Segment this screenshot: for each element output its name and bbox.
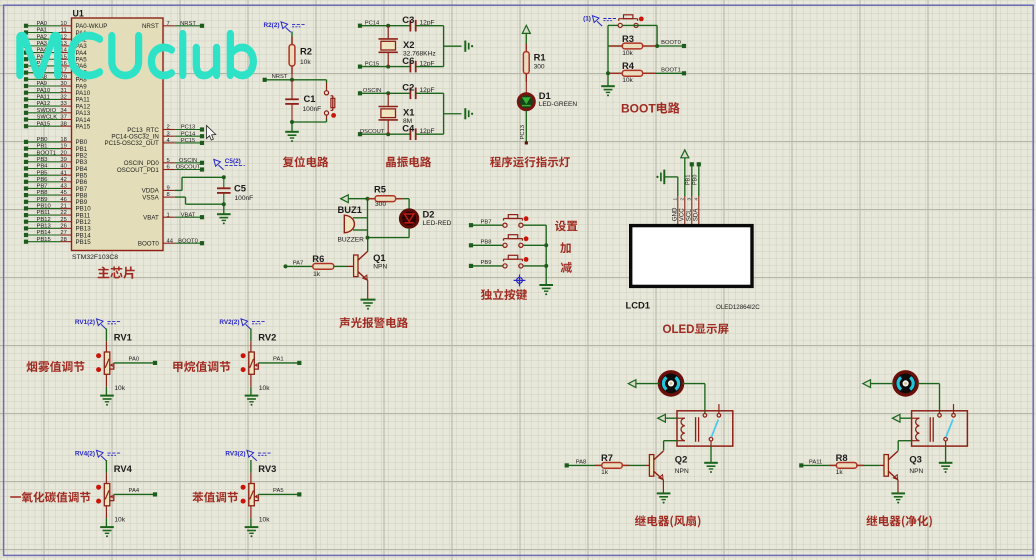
wire PB7 to button xyxy=(473,224,503,226)
svg-text:15: 15 xyxy=(60,54,66,60)
svg-text:OSCOUT: OSCOUT xyxy=(176,165,201,171)
pushbutton PB8 xyxy=(503,235,529,248)
terminal SCL xyxy=(690,162,694,166)
label 加 xyxy=(560,242,571,253)
wire VCC xyxy=(684,158,686,196)
svg-text:C4: C4 xyxy=(402,122,415,133)
chip pin 26 PB13 xyxy=(24,223,91,232)
svg-text:PC13: PC13 xyxy=(520,125,526,140)
display LCD1 OLED12864I2C xyxy=(626,226,761,311)
terminal PC15 xyxy=(358,65,362,69)
wire R1 to D1 xyxy=(525,74,527,93)
svg-text:GND: GND xyxy=(672,207,679,221)
svg-text:PC14: PC14 xyxy=(181,131,196,137)
IC U1 STM32F103C8 body xyxy=(72,8,164,261)
svg-text:11: 11 xyxy=(61,28,67,34)
svg-text:C2: C2 xyxy=(402,82,414,93)
pin 4 SDA xyxy=(693,198,700,222)
svg-text:PA2: PA2 xyxy=(37,34,48,40)
junction PC15-crystal xyxy=(386,65,390,69)
junction rail PB9 xyxy=(544,264,548,268)
chip pin 46 PB9 xyxy=(24,197,88,206)
wire top RV2 xyxy=(250,329,252,353)
svg-text:PA15: PA15 xyxy=(76,123,91,130)
svg-text:R7: R7 xyxy=(601,452,613,463)
svg-text:Q1: Q1 xyxy=(373,252,386,263)
chip pin 45 PB8 xyxy=(24,190,88,199)
svg-text:PB8: PB8 xyxy=(37,190,48,196)
svg-text:39: 39 xyxy=(60,157,66,163)
chip pin 15 PA5 xyxy=(24,54,87,63)
net marker RV3(2) xyxy=(225,450,271,460)
chip pin 28 PB15 xyxy=(24,237,91,246)
svg-text:PC15-OSC32_OUT: PC15-OSC32_OUT xyxy=(104,140,159,147)
ground OLED sideways xyxy=(661,170,664,185)
svg-text:PB15: PB15 xyxy=(37,237,51,243)
svg-text:PB11: PB11 xyxy=(37,210,51,216)
OLED pin stubs xyxy=(678,196,699,226)
mouse cursor xyxy=(207,126,216,141)
svg-text:RV4: RV4 xyxy=(114,463,133,474)
wire C6 to gnd rail xyxy=(416,66,444,68)
wire button PB8 to rail xyxy=(523,244,546,246)
svg-text:22: 22 xyxy=(60,210,66,216)
power arrow OLED xyxy=(681,150,689,158)
chip pin 7 NRST xyxy=(142,21,204,30)
wire bottom RV3 xyxy=(250,506,252,527)
chip pin 16 PA6 xyxy=(24,61,87,70)
terminal PA11 xyxy=(799,463,803,467)
chip pin 42 PB6 xyxy=(24,177,88,186)
wire motor to relay contact xyxy=(917,384,939,414)
wire OSCOUT row xyxy=(362,133,411,135)
label 苯值调节 xyxy=(192,492,238,503)
wire PA8 to R7 xyxy=(569,464,602,466)
chip pin 40 PB4 xyxy=(24,164,88,173)
ground Q2 xyxy=(657,493,671,499)
svg-text:100nF: 100nF xyxy=(303,106,322,113)
wire button PB9 to rail xyxy=(523,265,546,267)
svg-text:PC13: PC13 xyxy=(181,125,196,131)
power arrow coil xyxy=(658,414,666,422)
label 继电器(风扇) xyxy=(635,515,701,527)
transistor Q2 NPN xyxy=(649,451,689,480)
svg-text:BOOT0: BOOT0 xyxy=(138,241,160,248)
relay Q3 box xyxy=(912,404,968,446)
power arrow D1 xyxy=(522,25,530,33)
svg-text:10k: 10k xyxy=(300,59,311,66)
capacitor C3 xyxy=(402,14,434,32)
chip pin 30 PA9 xyxy=(24,81,87,90)
wire D2 bottom xyxy=(368,228,410,238)
wire arrow-motor xyxy=(636,383,659,385)
junction OSCIN-crystal xyxy=(386,91,390,95)
wire C3 to gnd rail xyxy=(416,25,444,27)
chip pin 27 PB14 xyxy=(24,230,91,239)
svg-text:RV2(2): RV2(2) xyxy=(219,319,239,326)
svg-text:PB3: PB3 xyxy=(37,157,48,163)
wire top RV3 xyxy=(250,460,252,484)
label 声光报警电路 xyxy=(339,317,408,328)
wiper wire RV3 xyxy=(254,494,297,500)
power arrow alarm xyxy=(341,195,349,203)
ground RV3 xyxy=(245,527,259,533)
svg-text:NRST: NRST xyxy=(142,23,159,30)
terminal BOOT0 xyxy=(682,44,686,48)
wire NRST node xyxy=(267,79,327,81)
label 烟雾值调节 xyxy=(26,361,84,372)
terminal BOOT1 xyxy=(682,71,686,75)
svg-text:20: 20 xyxy=(60,150,66,156)
label 独立按键 xyxy=(481,289,527,300)
wire D1 to PC13 xyxy=(525,111,527,142)
pushbutton PB7 xyxy=(503,215,529,228)
junction rail PB8 xyxy=(544,243,548,247)
origin marker xyxy=(514,275,526,287)
wire coil to collector xyxy=(664,441,677,451)
svg-text:33: 33 xyxy=(60,101,66,107)
motor Q2 load xyxy=(659,372,682,395)
pushbutton PB9 xyxy=(503,255,529,268)
ground crystal xyxy=(465,41,468,52)
svg-text:U1: U1 xyxy=(73,8,84,18)
svg-text:PA5: PA5 xyxy=(273,488,284,494)
power arrow motor xyxy=(863,380,871,388)
svg-text:PB7: PB7 xyxy=(481,219,492,225)
svg-text:LED-GREEN: LED-GREEN xyxy=(539,101,578,108)
svg-text:1: 1 xyxy=(673,198,679,201)
svg-text:16: 16 xyxy=(60,61,66,67)
svg-text:BOOT1: BOOT1 xyxy=(37,150,57,156)
wire C4 to gnd rail xyxy=(416,133,444,135)
chip pin 11 PA1 xyxy=(24,28,87,37)
wire contact to ground xyxy=(945,446,947,462)
svg-text:PA11: PA11 xyxy=(37,94,50,100)
chip pin 10 PA0 xyxy=(24,21,107,30)
chip pin 4 PC15-OSC32_OUT xyxy=(104,138,204,147)
svg-text:SWCLK: SWCLK xyxy=(37,115,58,121)
ground reset xyxy=(285,132,299,138)
capacitor C1 xyxy=(285,80,321,122)
svg-text:44: 44 xyxy=(167,238,174,244)
svg-text:PB7: PB7 xyxy=(37,184,48,190)
svg-text:OSCIN: OSCIN xyxy=(179,158,197,164)
chip pin 37 SWCLK xyxy=(24,115,91,124)
junction collector node xyxy=(366,236,370,240)
svg-text:7: 7 xyxy=(167,21,170,27)
svg-text:2: 2 xyxy=(167,125,170,131)
wire VDDA to C5 xyxy=(175,177,224,190)
resistor R5 xyxy=(368,183,403,208)
svg-text:BUZZER: BUZZER xyxy=(338,236,365,243)
svg-text:PB4: PB4 xyxy=(37,164,49,170)
svg-text:SCL: SCL xyxy=(686,209,693,222)
terminal OSCOUT xyxy=(358,132,362,136)
svg-text:X1: X1 xyxy=(403,107,414,118)
wire PA11 to R8 xyxy=(803,464,836,466)
transistor Q1 NPN xyxy=(354,251,388,280)
label 晶振电路 xyxy=(386,156,431,167)
ground keys xyxy=(539,285,553,291)
svg-text:26: 26 xyxy=(60,223,66,229)
svg-text:19: 19 xyxy=(60,144,66,150)
pin 2 VCC xyxy=(679,198,686,222)
svg-text:SDA: SDA xyxy=(693,208,700,222)
wire R8 to base xyxy=(857,464,884,466)
ground BOOT xyxy=(601,86,615,92)
terminal PB9 xyxy=(469,264,473,268)
svg-text:OLED12864I2C: OLED12864I2C xyxy=(716,304,760,311)
pushbutton BOOT xyxy=(618,15,644,28)
chip pin 13 PA3 xyxy=(24,41,87,50)
wiper wire RV1 xyxy=(110,363,153,369)
chip pin 20 BOOT1 xyxy=(24,150,88,159)
svg-text:38: 38 xyxy=(60,121,66,127)
chip pin 9 VDDA xyxy=(142,186,175,195)
svg-text:NPN: NPN xyxy=(909,468,923,475)
svg-text:8: 8 xyxy=(167,192,170,198)
wire PC14 row xyxy=(362,25,411,27)
svg-text:45: 45 xyxy=(60,190,66,196)
wire GND pin xyxy=(664,177,678,196)
chip pin 5 OSCIN_PD0 xyxy=(124,158,204,167)
junction PC14-crystal xyxy=(386,24,390,28)
terminal PC14 xyxy=(358,24,362,28)
chip pin 19 PB1 xyxy=(24,144,88,153)
svg-text:PA7: PA7 xyxy=(293,261,304,267)
resistor R2 xyxy=(289,37,312,75)
wire arrow to R1 xyxy=(525,33,527,51)
chip pin 44 BOOT0 xyxy=(138,238,204,247)
svg-text:10k: 10k xyxy=(622,50,633,57)
svg-text:2: 2 xyxy=(680,198,686,201)
chip pin 43 PB7 xyxy=(24,184,88,193)
svg-text:10: 10 xyxy=(60,21,66,27)
svg-text:(1): (1) xyxy=(583,16,591,23)
resistor R3 xyxy=(608,33,684,57)
label 设置 xyxy=(555,221,578,232)
power arrow motor xyxy=(628,380,636,388)
label 减 xyxy=(561,262,572,273)
wire PC15 row xyxy=(362,66,411,68)
svg-text:5: 5 xyxy=(167,158,170,164)
svg-text:R2(2): R2(2) xyxy=(264,22,280,29)
wire OSCIN row xyxy=(362,92,411,94)
crystal X2 xyxy=(379,26,436,67)
ground relay contact xyxy=(939,463,953,469)
svg-text:R4: R4 xyxy=(622,60,635,71)
wire R3 to R4 xyxy=(607,46,609,73)
svg-text:3: 3 xyxy=(167,131,170,137)
wire keys rail xyxy=(545,225,547,284)
svg-text:43: 43 xyxy=(60,184,66,190)
svg-text:PB9: PB9 xyxy=(481,260,492,266)
wire contact to ground xyxy=(710,446,712,462)
svg-text:1: 1 xyxy=(167,212,170,218)
power arrow coil xyxy=(892,414,900,422)
svg-text:LED-RED: LED-RED xyxy=(423,220,452,227)
svg-text:PA1: PA1 xyxy=(273,356,284,362)
junction NRST-C1 xyxy=(290,78,294,82)
potentiometer RV4 xyxy=(104,463,132,524)
svg-text:VBAT: VBAT xyxy=(143,215,159,222)
svg-text:PB8: PB8 xyxy=(481,240,492,246)
label 复位电路 xyxy=(283,156,329,167)
wire bottom RV2 xyxy=(250,374,252,395)
svg-text:10k: 10k xyxy=(259,385,270,392)
chip pin 1 VBAT xyxy=(143,212,204,221)
wire alarm rail xyxy=(367,199,369,238)
svg-text:PB5: PB5 xyxy=(37,170,48,176)
svg-text:PB10: PB10 xyxy=(37,204,51,210)
svg-text:PB0: PB0 xyxy=(693,175,699,185)
svg-text:46: 46 xyxy=(60,197,66,203)
svg-text:RV2: RV2 xyxy=(258,331,276,342)
terminal PA0 xyxy=(153,361,157,365)
chip pin 18 PB0 xyxy=(24,137,88,146)
chip pin 38 PA15 xyxy=(24,121,91,130)
terminal PA1 xyxy=(297,361,301,365)
chip pin 31 PA10 xyxy=(24,88,91,97)
svg-text:28: 28 xyxy=(60,237,66,243)
junction dots C5 xyxy=(222,175,226,179)
label BOOT电路 xyxy=(621,101,680,115)
wire SCL xyxy=(691,166,693,196)
chip pin 3 PC14-OSC32_IN xyxy=(111,131,204,140)
resistor R6 xyxy=(312,253,334,278)
svg-text:C3: C3 xyxy=(402,14,414,25)
wire bottom RV4 xyxy=(105,506,107,527)
svg-text:NPN: NPN xyxy=(373,263,387,270)
svg-text:PB1: PB1 xyxy=(37,144,48,150)
pin 3 SCL xyxy=(686,198,693,222)
wire emitter ground xyxy=(662,480,664,493)
pot marker dots RV3 xyxy=(241,485,246,490)
svg-text:34: 34 xyxy=(60,108,67,114)
svg-text:SWDIO: SWDIO xyxy=(37,108,57,114)
svg-text:14: 14 xyxy=(60,48,67,54)
svg-text:17: 17 xyxy=(60,68,66,74)
svg-text:X2: X2 xyxy=(403,39,414,50)
svg-text:18: 18 xyxy=(60,137,66,143)
resistor R1 xyxy=(523,44,545,82)
wire PA7 to R6 xyxy=(287,265,312,267)
LED D1 LED-GREEN xyxy=(518,90,577,110)
svg-text:C6: C6 xyxy=(402,55,414,66)
svg-text:R8: R8 xyxy=(836,452,848,463)
ground RV2 xyxy=(245,396,259,402)
ground RV4 xyxy=(100,527,114,533)
svg-text:12: 12 xyxy=(60,34,66,40)
svg-text:PB0: PB0 xyxy=(37,137,48,143)
svg-text:PA4: PA4 xyxy=(129,488,140,494)
label OLED显示屏 xyxy=(663,324,729,336)
net marker (1) xyxy=(583,16,616,26)
junction R5-rail xyxy=(366,197,370,201)
wire R4 to ground xyxy=(607,73,609,86)
resistor R8 xyxy=(829,452,864,476)
pot marker dots RV2 xyxy=(241,353,246,358)
pin 1 GND xyxy=(672,198,679,222)
wire bottom RV1 xyxy=(105,374,107,395)
wire R7 to base xyxy=(622,464,649,466)
ground Q1 xyxy=(361,300,376,306)
svg-text:C5(2): C5(2) xyxy=(225,158,241,165)
svg-text:VCC: VCC xyxy=(679,208,686,222)
svg-text:PA3: PA3 xyxy=(37,41,48,47)
svg-text:Q3: Q3 xyxy=(909,453,922,464)
label 一氧化碳值调节 xyxy=(10,492,90,503)
chip pin 25 PB12 xyxy=(24,217,91,226)
svg-text:NRST: NRST xyxy=(180,21,196,27)
wire button left xyxy=(608,25,618,46)
svg-text:PA1: PA1 xyxy=(37,28,48,34)
svg-text:LCD1: LCD1 xyxy=(626,299,650,310)
svg-text:9: 9 xyxy=(167,186,170,192)
label 继电器(净化) xyxy=(866,515,932,527)
wire button right to BOOT0 xyxy=(622,25,657,46)
net marker RV1(2) xyxy=(75,319,121,329)
wire coil to collector xyxy=(898,441,911,451)
wire arrow to R5 xyxy=(348,198,375,200)
svg-text:R2: R2 xyxy=(300,46,312,57)
svg-text:R5: R5 xyxy=(374,183,386,194)
wire C5 to ground xyxy=(223,204,225,214)
wire button PB7 to rail xyxy=(523,224,546,226)
ground C5 xyxy=(217,214,231,220)
svg-text:RV3: RV3 xyxy=(258,463,276,474)
terminal PB7 xyxy=(469,223,473,227)
wire gnd rail xyxy=(443,93,445,134)
svg-text:PA8: PA8 xyxy=(576,460,587,466)
pot marker dots RV4 xyxy=(96,485,101,490)
svg-text:OLED: OLED xyxy=(663,324,695,336)
wire R2 to NRST node xyxy=(291,66,293,80)
chip pin 39 PB3 xyxy=(24,157,88,166)
svg-text:31: 31 xyxy=(60,88,66,94)
svg-text:BOOT0: BOOT0 xyxy=(178,238,198,244)
capacitor C4 xyxy=(402,122,434,140)
svg-text:25: 25 xyxy=(60,217,66,223)
wire PB8 to button xyxy=(473,244,503,246)
svg-text:VSSA: VSSA xyxy=(142,194,159,201)
motor Q3 load xyxy=(894,372,917,395)
chip pin 8 VSSA xyxy=(142,192,175,201)
svg-text:3: 3 xyxy=(687,198,693,201)
wire rail to ground xyxy=(444,113,462,115)
svg-text:PB1: PB1 xyxy=(686,175,692,185)
svg-text:OSCOUT_PD1: OSCOUT_PD1 xyxy=(117,167,160,174)
svg-text:RV4(2): RV4(2) xyxy=(75,450,95,457)
ground relay contact xyxy=(704,463,718,469)
svg-text:32: 32 xyxy=(60,94,66,100)
label 甲烷值调节 xyxy=(173,361,230,372)
terminal PA8 xyxy=(565,463,569,467)
svg-text:10k: 10k xyxy=(622,77,633,84)
svg-text:PA11: PA11 xyxy=(809,460,822,466)
chip pin 6 OSCOUT_PD1 xyxy=(117,165,204,174)
svg-text:NPN: NPN xyxy=(675,468,689,475)
relay Q2 box xyxy=(677,404,733,446)
resistor R7 xyxy=(595,452,630,476)
chip pin 21 PB10 xyxy=(24,204,91,213)
wire R5 to D2 xyxy=(396,199,409,210)
svg-text:R1: R1 xyxy=(534,51,546,62)
svg-text:STM32F103C8: STM32F103C8 xyxy=(72,254,118,261)
wire gnd rail xyxy=(443,26,445,67)
crystal X1 xyxy=(379,93,415,134)
ground Q3 xyxy=(891,493,905,499)
